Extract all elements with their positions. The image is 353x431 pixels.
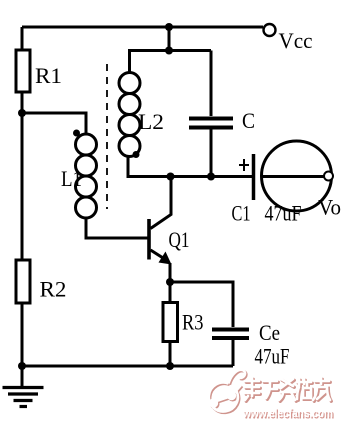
resistor R2 <box>16 260 30 303</box>
transistor Q1 collector <box>151 177 172 229</box>
inductor L2 <box>119 73 140 157</box>
svg-text:L1: L1 <box>61 166 82 191</box>
wire Vo diameter line <box>262 175 325 178</box>
svg-text:R2: R2 <box>40 277 67 302</box>
wire ground stub <box>21 366 24 387</box>
ground <box>3 388 44 407</box>
capacitor Ce <box>212 330 249 339</box>
node junction emitter <box>166 278 174 286</box>
wire R3 bottom lead <box>169 342 172 367</box>
wire R2 bottom lead <box>21 303 24 366</box>
wire top rail Vcc <box>22 26 263 29</box>
node junction ground rail <box>18 362 26 370</box>
wire left column to R2 <box>21 113 24 260</box>
capacitor C <box>189 119 233 128</box>
svg-text:Q1: Q1 <box>169 227 190 252</box>
svg-text:Ce: Ce <box>259 320 280 345</box>
wire Vcc stub <box>168 27 171 51</box>
wire L2 top branch <box>130 51 212 73</box>
wire Ce bottom lead <box>232 340 235 366</box>
terminal Vo <box>324 172 333 181</box>
terminal Vcc <box>264 24 276 36</box>
wire bottom rail <box>22 365 233 368</box>
wire C bottom lead <box>210 130 213 178</box>
watermark logo elecfans <box>209 370 246 413</box>
wire C top lead <box>210 51 213 117</box>
label plus sign C1 <box>239 159 249 171</box>
node junction branch <box>165 47 173 55</box>
svg-text:47uF: 47uF <box>265 201 302 226</box>
watermark text dianzifashaoyou <box>245 378 331 401</box>
resistor R3 <box>163 303 178 342</box>
wire R3 top lead <box>169 282 172 303</box>
svg-text:Vo: Vo <box>318 195 341 220</box>
transistor Q1 emitter <box>151 250 168 261</box>
wire junction to L1 top <box>22 113 86 135</box>
svg-text:L2: L2 <box>138 109 164 134</box>
svg-text:R3: R3 <box>182 310 204 335</box>
capacitor C1 plate <box>252 154 256 200</box>
wire L1 bottom to base <box>86 218 148 238</box>
svg-text:Vcc: Vcc <box>279 28 313 53</box>
transistor Q1 emitter arrow <box>159 252 172 265</box>
transistor Q1 base bar <box>147 219 151 260</box>
node junction R3 bottom <box>166 362 174 370</box>
wire transformer core dashed line <box>106 64 108 209</box>
svg-text:R1: R1 <box>35 63 62 88</box>
node phase dot L2 <box>133 151 140 158</box>
wire emitter down <box>169 263 172 282</box>
node junction R1-R2-L1 <box>18 109 26 117</box>
node junction top rail <box>165 23 173 31</box>
node junction C bottom <box>207 173 215 181</box>
resistor R1 <box>16 50 30 92</box>
wire emitter to Ce <box>170 282 233 327</box>
output port Vo circle <box>262 141 332 211</box>
svg-text:47uF: 47uF <box>255 344 290 369</box>
node phase dot L1 <box>73 130 80 137</box>
svg-text:C: C <box>242 108 255 133</box>
wire R1 top lead <box>21 27 24 50</box>
svg-text:C1: C1 <box>232 201 251 226</box>
wire L2 bottom to mid rail <box>128 157 253 177</box>
wire R1 bottom lead <box>21 92 24 113</box>
inductor L1 <box>76 134 97 218</box>
node junction collector <box>167 173 175 181</box>
svg-text:www.elecfans.com: www.elecfans.com <box>242 406 333 420</box>
